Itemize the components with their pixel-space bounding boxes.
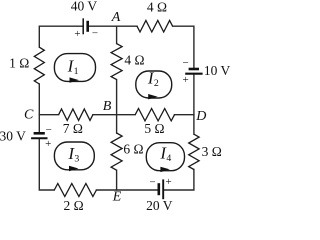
wire right: 3ohm to bottom corner to 20V battery bbox=[164, 170, 194, 191]
battery 40V: short plate (-) bbox=[86, 21, 89, 32]
mesh loop I3 bbox=[54, 142, 94, 171]
svg-text:30 V: 30 V bbox=[0, 128, 26, 143]
wire middle vertical: 4ohm to B to 6ohm bbox=[116, 80, 118, 133]
mesh loop I4 bbox=[146, 143, 184, 172]
svg-text:D: D bbox=[195, 109, 206, 124]
svg-text:5 Ω: 5 Ω bbox=[144, 121, 164, 136]
svg-text:20 V: 20 V bbox=[146, 198, 173, 213]
wire top-left: corner to 40V battery bbox=[39, 26, 83, 47]
mesh loop I1 bbox=[54, 54, 95, 83]
resistor 5ohm bbox=[135, 109, 174, 121]
svg-text:+: + bbox=[74, 28, 80, 40]
battery 40V: long plate (+) bbox=[82, 18, 84, 34]
battery 30V: short plate (-) bbox=[34, 132, 45, 135]
svg-text:−: − bbox=[92, 28, 98, 40]
battery 10V: short plate (-) bbox=[189, 68, 199, 71]
svg-text:2 Ω: 2 Ω bbox=[64, 198, 84, 213]
resistor 1ohm left vertical bbox=[34, 47, 44, 84]
svg-text:10 V: 10 V bbox=[204, 63, 231, 78]
wire bottom: 2ohm to E to 20V battery bbox=[96, 189, 156, 191]
battery 20V: long plate (+) bbox=[162, 179, 164, 199]
svg-text:1 Ω: 1 Ω bbox=[9, 56, 29, 71]
svg-text:B: B bbox=[103, 99, 112, 114]
svg-text:4 Ω: 4 Ω bbox=[124, 53, 144, 68]
svg-text:I3: I3 bbox=[67, 144, 79, 165]
wire middle vertical: node A down to 4ohm bbox=[116, 26, 118, 43]
resistor 2ohm bottom bbox=[54, 184, 96, 197]
wire middle horizontal: 5ohm to D bbox=[175, 114, 194, 116]
svg-text:I4: I4 bbox=[159, 143, 171, 164]
svg-text:−: − bbox=[149, 177, 155, 189]
svg-text:7 Ω: 7 Ω bbox=[63, 121, 83, 136]
svg-text:3 Ω: 3 Ω bbox=[202, 144, 222, 159]
svg-text:I1: I1 bbox=[67, 57, 79, 78]
resistor 4ohm top horizontal bbox=[137, 20, 173, 32]
wire right: 10V battery to D to 3ohm bbox=[193, 75, 195, 134]
wire middle horizontal: C to 7ohm bbox=[39, 114, 58, 116]
resistor 7ohm bbox=[59, 109, 93, 120]
resistor 3ohm right vertical bbox=[189, 134, 199, 169]
svg-text:C: C bbox=[24, 107, 34, 122]
wire left: 30V battery to bottom corner bbox=[39, 139, 54, 190]
wire top-right: 4ohm to right corner bbox=[173, 26, 194, 68]
battery 10V: long plate (+) bbox=[185, 73, 202, 75]
svg-text:A: A bbox=[111, 10, 121, 25]
svg-text:−: − bbox=[46, 124, 52, 136]
wire middle vertical: 6ohm to E bbox=[116, 170, 118, 190]
svg-text:40 V: 40 V bbox=[71, 0, 98, 13]
svg-text:4 Ω: 4 Ω bbox=[147, 0, 167, 14]
svg-text:E: E bbox=[112, 189, 122, 204]
wire top-middle: 40V battery to 4ohm, through node A bbox=[88, 25, 137, 27]
battery 20V: short plate (-) bbox=[158, 183, 161, 195]
svg-text:−: − bbox=[182, 57, 188, 69]
resistor 4ohm middle vertical bbox=[111, 44, 122, 80]
svg-text:+: + bbox=[165, 176, 171, 188]
svg-text:+: + bbox=[45, 138, 51, 150]
resistor 6ohm middle vertical bbox=[111, 133, 122, 170]
wire left: 1ohm to 30V battery bbox=[38, 84, 40, 132]
wire middle horizontal: 7ohm to B to 5ohm bbox=[93, 114, 135, 116]
svg-text:6 Ω: 6 Ω bbox=[123, 141, 143, 156]
svg-text:+: + bbox=[182, 74, 188, 86]
battery 30V: long plate (+) bbox=[31, 137, 47, 139]
mesh loop I2 bbox=[136, 69, 172, 100]
